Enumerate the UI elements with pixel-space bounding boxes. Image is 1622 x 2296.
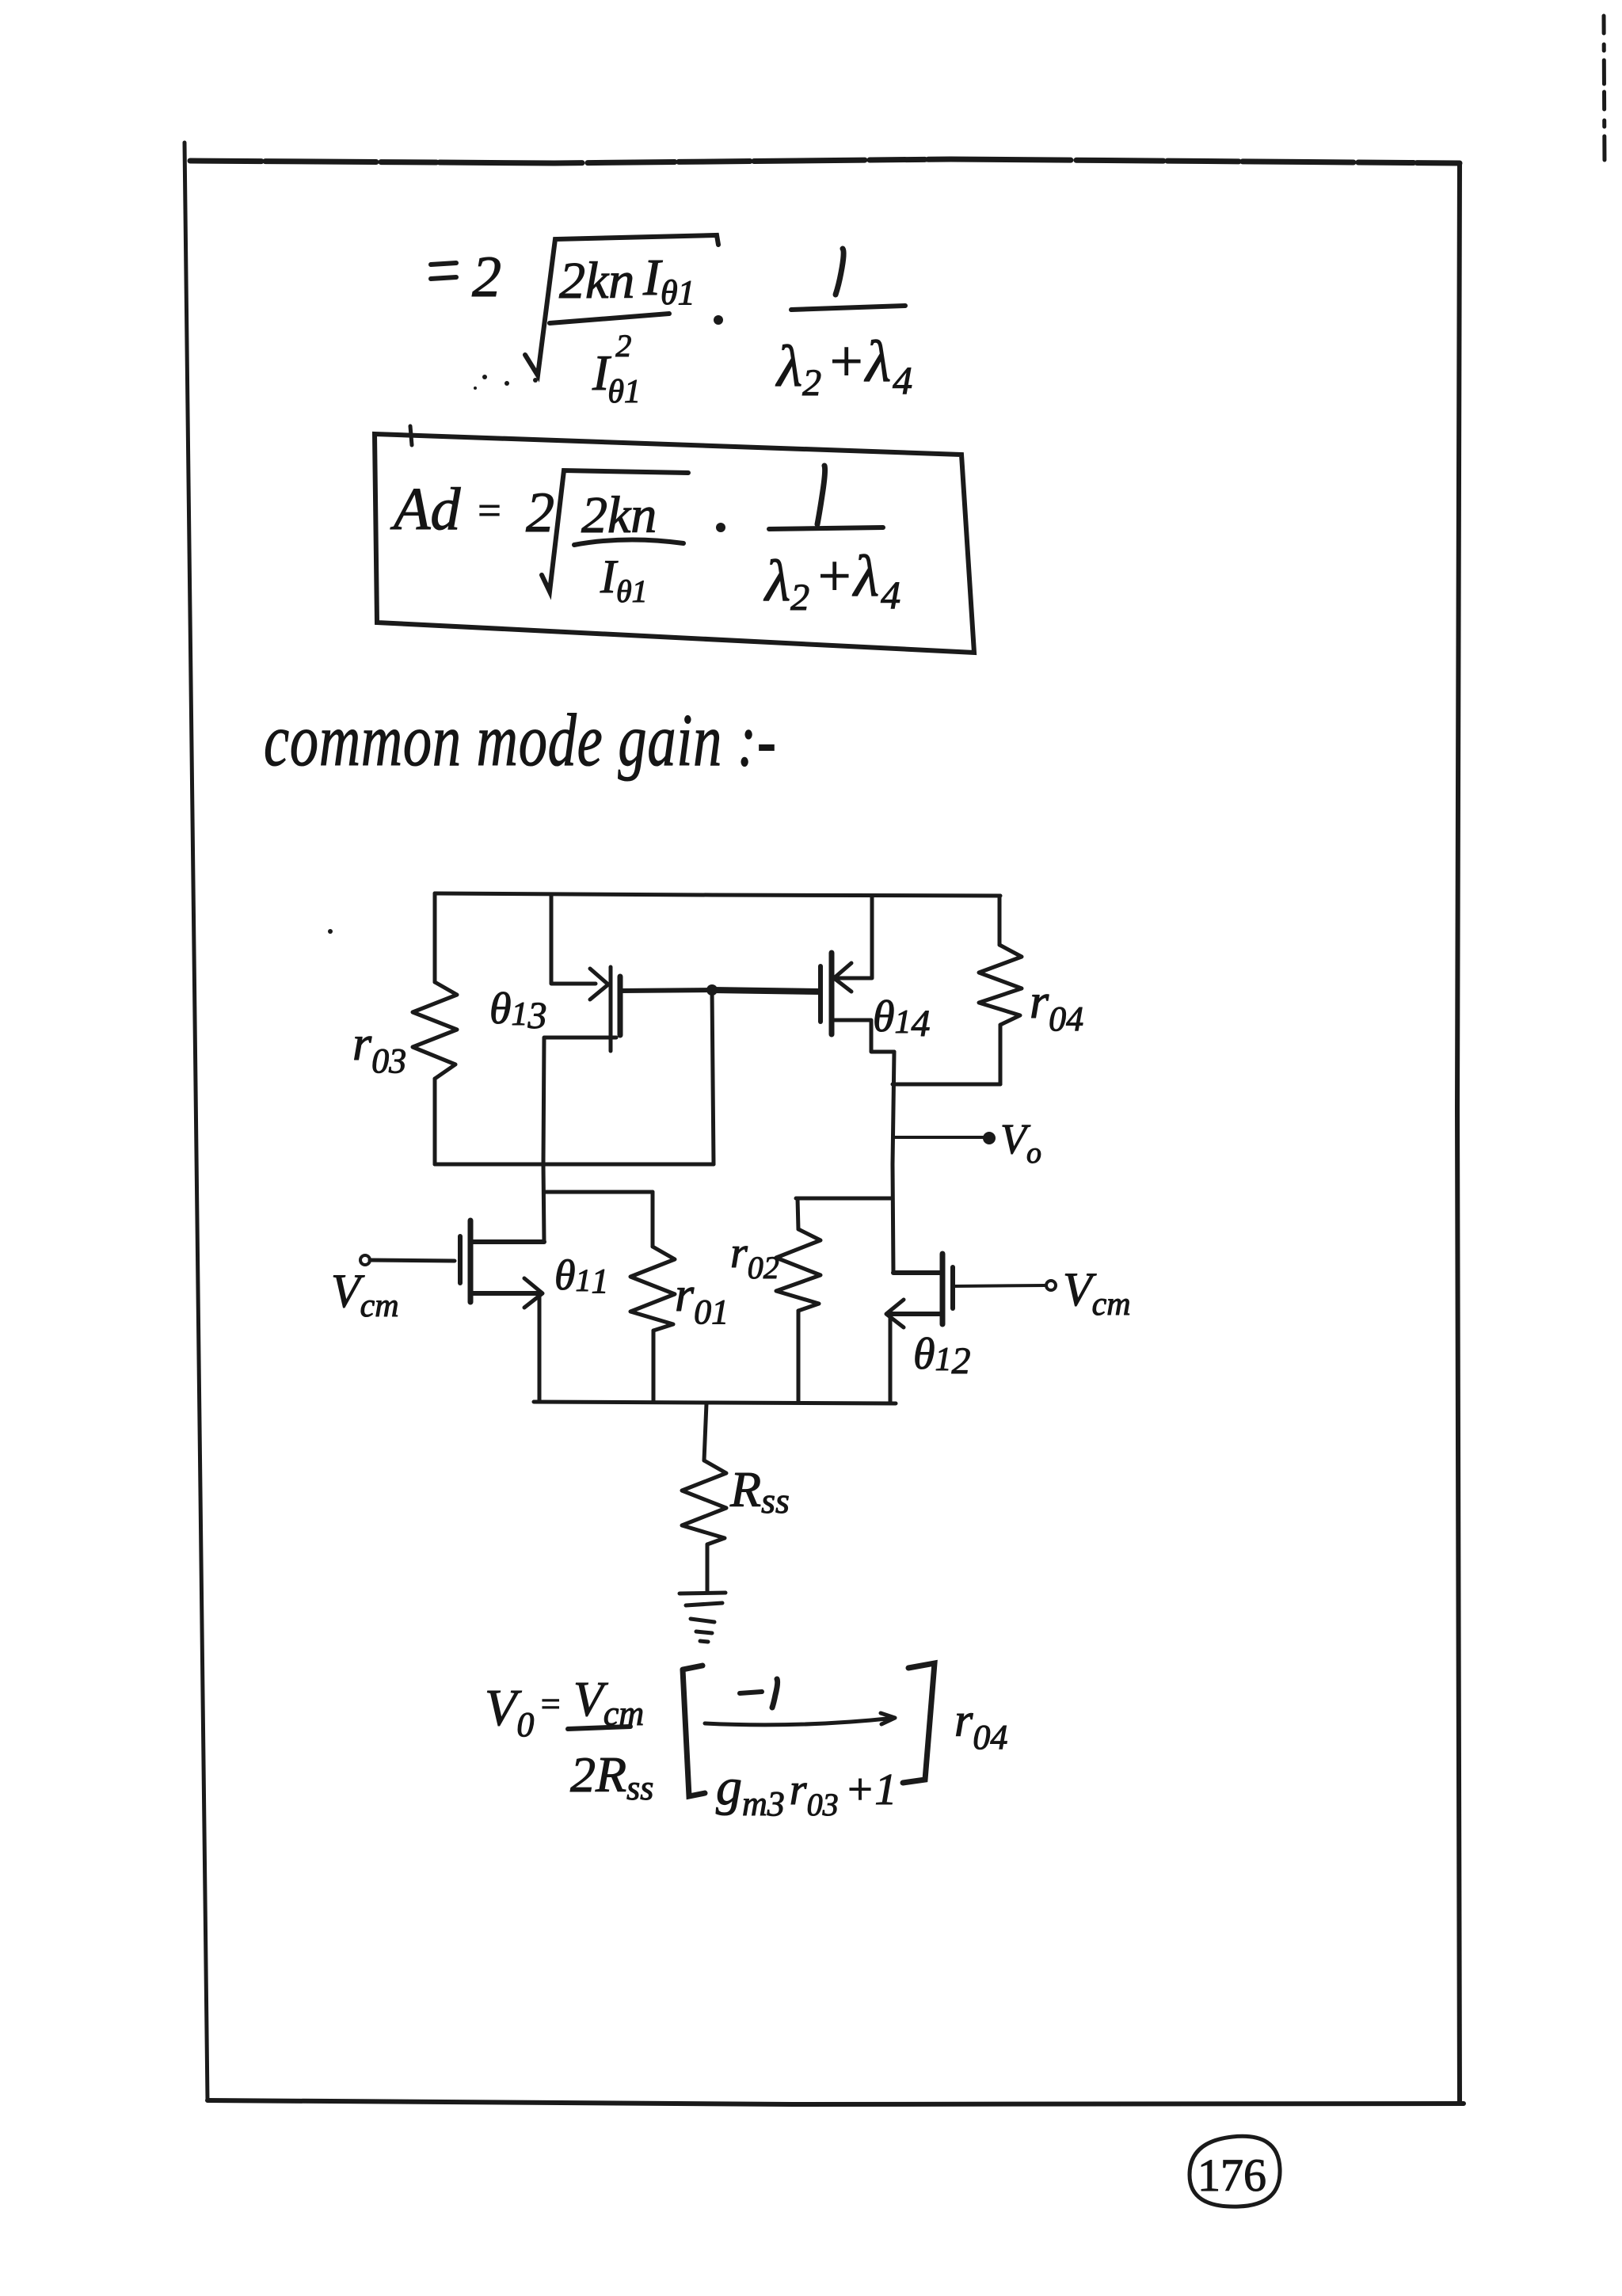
- svg-text:θ11: θ11: [554, 1251, 609, 1300]
- wire Q14 source step: [832, 1020, 894, 1052]
- terminal Vcm right: [1046, 1281, 1056, 1290]
- svg-text:176: 176: [1197, 2149, 1266, 2201]
- svg-text:r04: r04: [954, 1694, 1007, 1757]
- wire lower box rail: [435, 1163, 714, 1167]
- svg-text:θ14: θ14: [873, 992, 931, 1045]
- svg-text:Vcm: Vcm: [331, 1265, 399, 1324]
- svg-text:2kn: 2kn: [581, 486, 657, 544]
- svg-text:common mode gain :-: common mode gain :-: [264, 699, 777, 782]
- svg-text:Vo: Vo: [1000, 1115, 1041, 1170]
- transistor Q14 gate bar: [818, 966, 823, 1022]
- svg-text:Vcm: Vcm: [1063, 1263, 1131, 1323]
- wire drop to Q3 gate: [551, 895, 596, 984]
- wire Q12 source stub: [890, 1312, 942, 1316]
- wire Q11 drain stub: [472, 1239, 544, 1244]
- svg-text:Ad: Ad: [390, 476, 461, 543]
- resistor r_o4: [979, 945, 1022, 1025]
- wire Vcm left to gate: [370, 1260, 455, 1261]
- equation: V_o = Vcm/2Rss [ -1/(gm3 r_o3 + 1) ] r_o4: [485, 1663, 1007, 1823]
- stray specks: [328, 375, 538, 934]
- equation: = 2 sqrt(2kn ID1 / ID1^2) . 1/(lambda2+lambda4): [431, 235, 912, 410]
- wire Q12 gate to Vcm: [953, 1285, 1045, 1286]
- circuit schematic: [331, 893, 1131, 1642]
- svg-text:Iθ1: Iθ1: [600, 550, 648, 609]
- transistor Q12 channel bar: [940, 1254, 946, 1324]
- wire r_o1 bottom: [652, 1331, 656, 1402]
- wire mid horizontal to r_o1: [544, 1190, 653, 1194]
- wire Q14 source to r_o4 bottom: [893, 1083, 1000, 1087]
- wire left drop to r_o3: [433, 893, 437, 982]
- wire Rss bottom: [706, 1544, 710, 1592]
- wire Q12 source down: [889, 1314, 893, 1402]
- svg-text:Vcm: Vcm: [573, 1673, 644, 1733]
- transistor Q11 channel bar: [468, 1220, 474, 1302]
- wire Q13 source stub: [545, 1036, 616, 1040]
- svg-text:r02: r02: [730, 1228, 779, 1285]
- wire Q11 source stub: [472, 1291, 539, 1296]
- transistor Q13 gate bar: [609, 967, 613, 1051]
- terminal V_o: [984, 1133, 994, 1143]
- wire r_o4 top: [998, 897, 1002, 945]
- resistor Rss: [682, 1460, 726, 1544]
- svg-text:V0: V0: [485, 1679, 534, 1744]
- ground: [680, 1593, 725, 1642]
- wire Rss top: [704, 1403, 706, 1460]
- transistor Q13 channel bar: [618, 977, 623, 1035]
- wire Q14 drain arrow: [834, 963, 851, 992]
- transistor Q12 gate bar: [950, 1267, 955, 1308]
- svg-text:2kn: 2kn: [559, 252, 634, 310]
- wire Q3 source to Q1 drain vertical: [543, 1038, 544, 1242]
- terminal Vcm left: [360, 1255, 370, 1265]
- wire gate interconnect to Q14: [712, 990, 820, 992]
- wire Q11 source arrow: [524, 1278, 543, 1308]
- svg-text:Rss: Rss: [729, 1461, 790, 1521]
- node junction dot: [706, 984, 718, 996]
- transistor Q14 channel bar: [829, 953, 835, 1034]
- wire Q14 drain: [834, 896, 872, 978]
- transistor Q11 gate bar: [458, 1236, 463, 1283]
- svg-text:θ12: θ12: [913, 1330, 971, 1382]
- wire junction down to box rail: [712, 990, 714, 1164]
- resistor r_o1: [630, 1247, 675, 1331]
- svg-text:2: 2: [472, 245, 501, 310]
- svg-text:Iθ1: Iθ1: [642, 249, 695, 312]
- wire Q12 source arrow: [886, 1300, 904, 1327]
- wire top supply rail: [435, 893, 1000, 896]
- resistor r_o3: [413, 982, 457, 1079]
- svg-text:r01: r01: [675, 1268, 729, 1331]
- svg-text:r03: r03: [352, 1017, 406, 1080]
- svg-text:λ2+λ4: λ2+λ4: [763, 544, 900, 619]
- wire Q11 source down: [538, 1293, 542, 1400]
- page number 176: [1190, 2136, 1280, 2207]
- svg-text:r04: r04: [1030, 975, 1083, 1038]
- svg-text:=: =: [475, 489, 503, 534]
- wire gate arrow Q3: [590, 969, 608, 1000]
- wire r_o3 bottom: [433, 1079, 437, 1164]
- equation box: Ad = 2 sqrt(2kn/ID1) . 1/(lambda2+lambda4): [375, 426, 974, 653]
- wire r_o2 bottom: [797, 1311, 801, 1402]
- resistor r_o2: [776, 1229, 821, 1311]
- svg-text:2Rss: 2Rss: [570, 1746, 653, 1807]
- svg-text:2: 2: [526, 481, 554, 544]
- wire r_o1 top: [651, 1192, 655, 1247]
- wire tail rail: [534, 1402, 896, 1403]
- svg-text:gm3r03+1: gm3r03+1: [716, 1758, 897, 1823]
- wire Q13 drain: [621, 990, 712, 991]
- svg-text:I2θ1: I2θ1: [592, 328, 641, 410]
- wire r_o4 bottom: [999, 1025, 1003, 1084]
- wire Q12 drain stub: [893, 1270, 942, 1275]
- wire r_o2 top: [798, 1198, 798, 1229]
- svg-text:=: =: [539, 1685, 562, 1723]
- page frame: [185, 16, 1605, 2104]
- svg-text:θ13: θ13: [489, 984, 547, 1037]
- svg-text:λ2+λ4: λ2+λ4: [775, 329, 912, 404]
- wire V_o tap: [894, 1136, 984, 1139]
- wire main right vertical: [893, 1052, 894, 1273]
- wire r_o2 top horizontal: [796, 1197, 893, 1201]
